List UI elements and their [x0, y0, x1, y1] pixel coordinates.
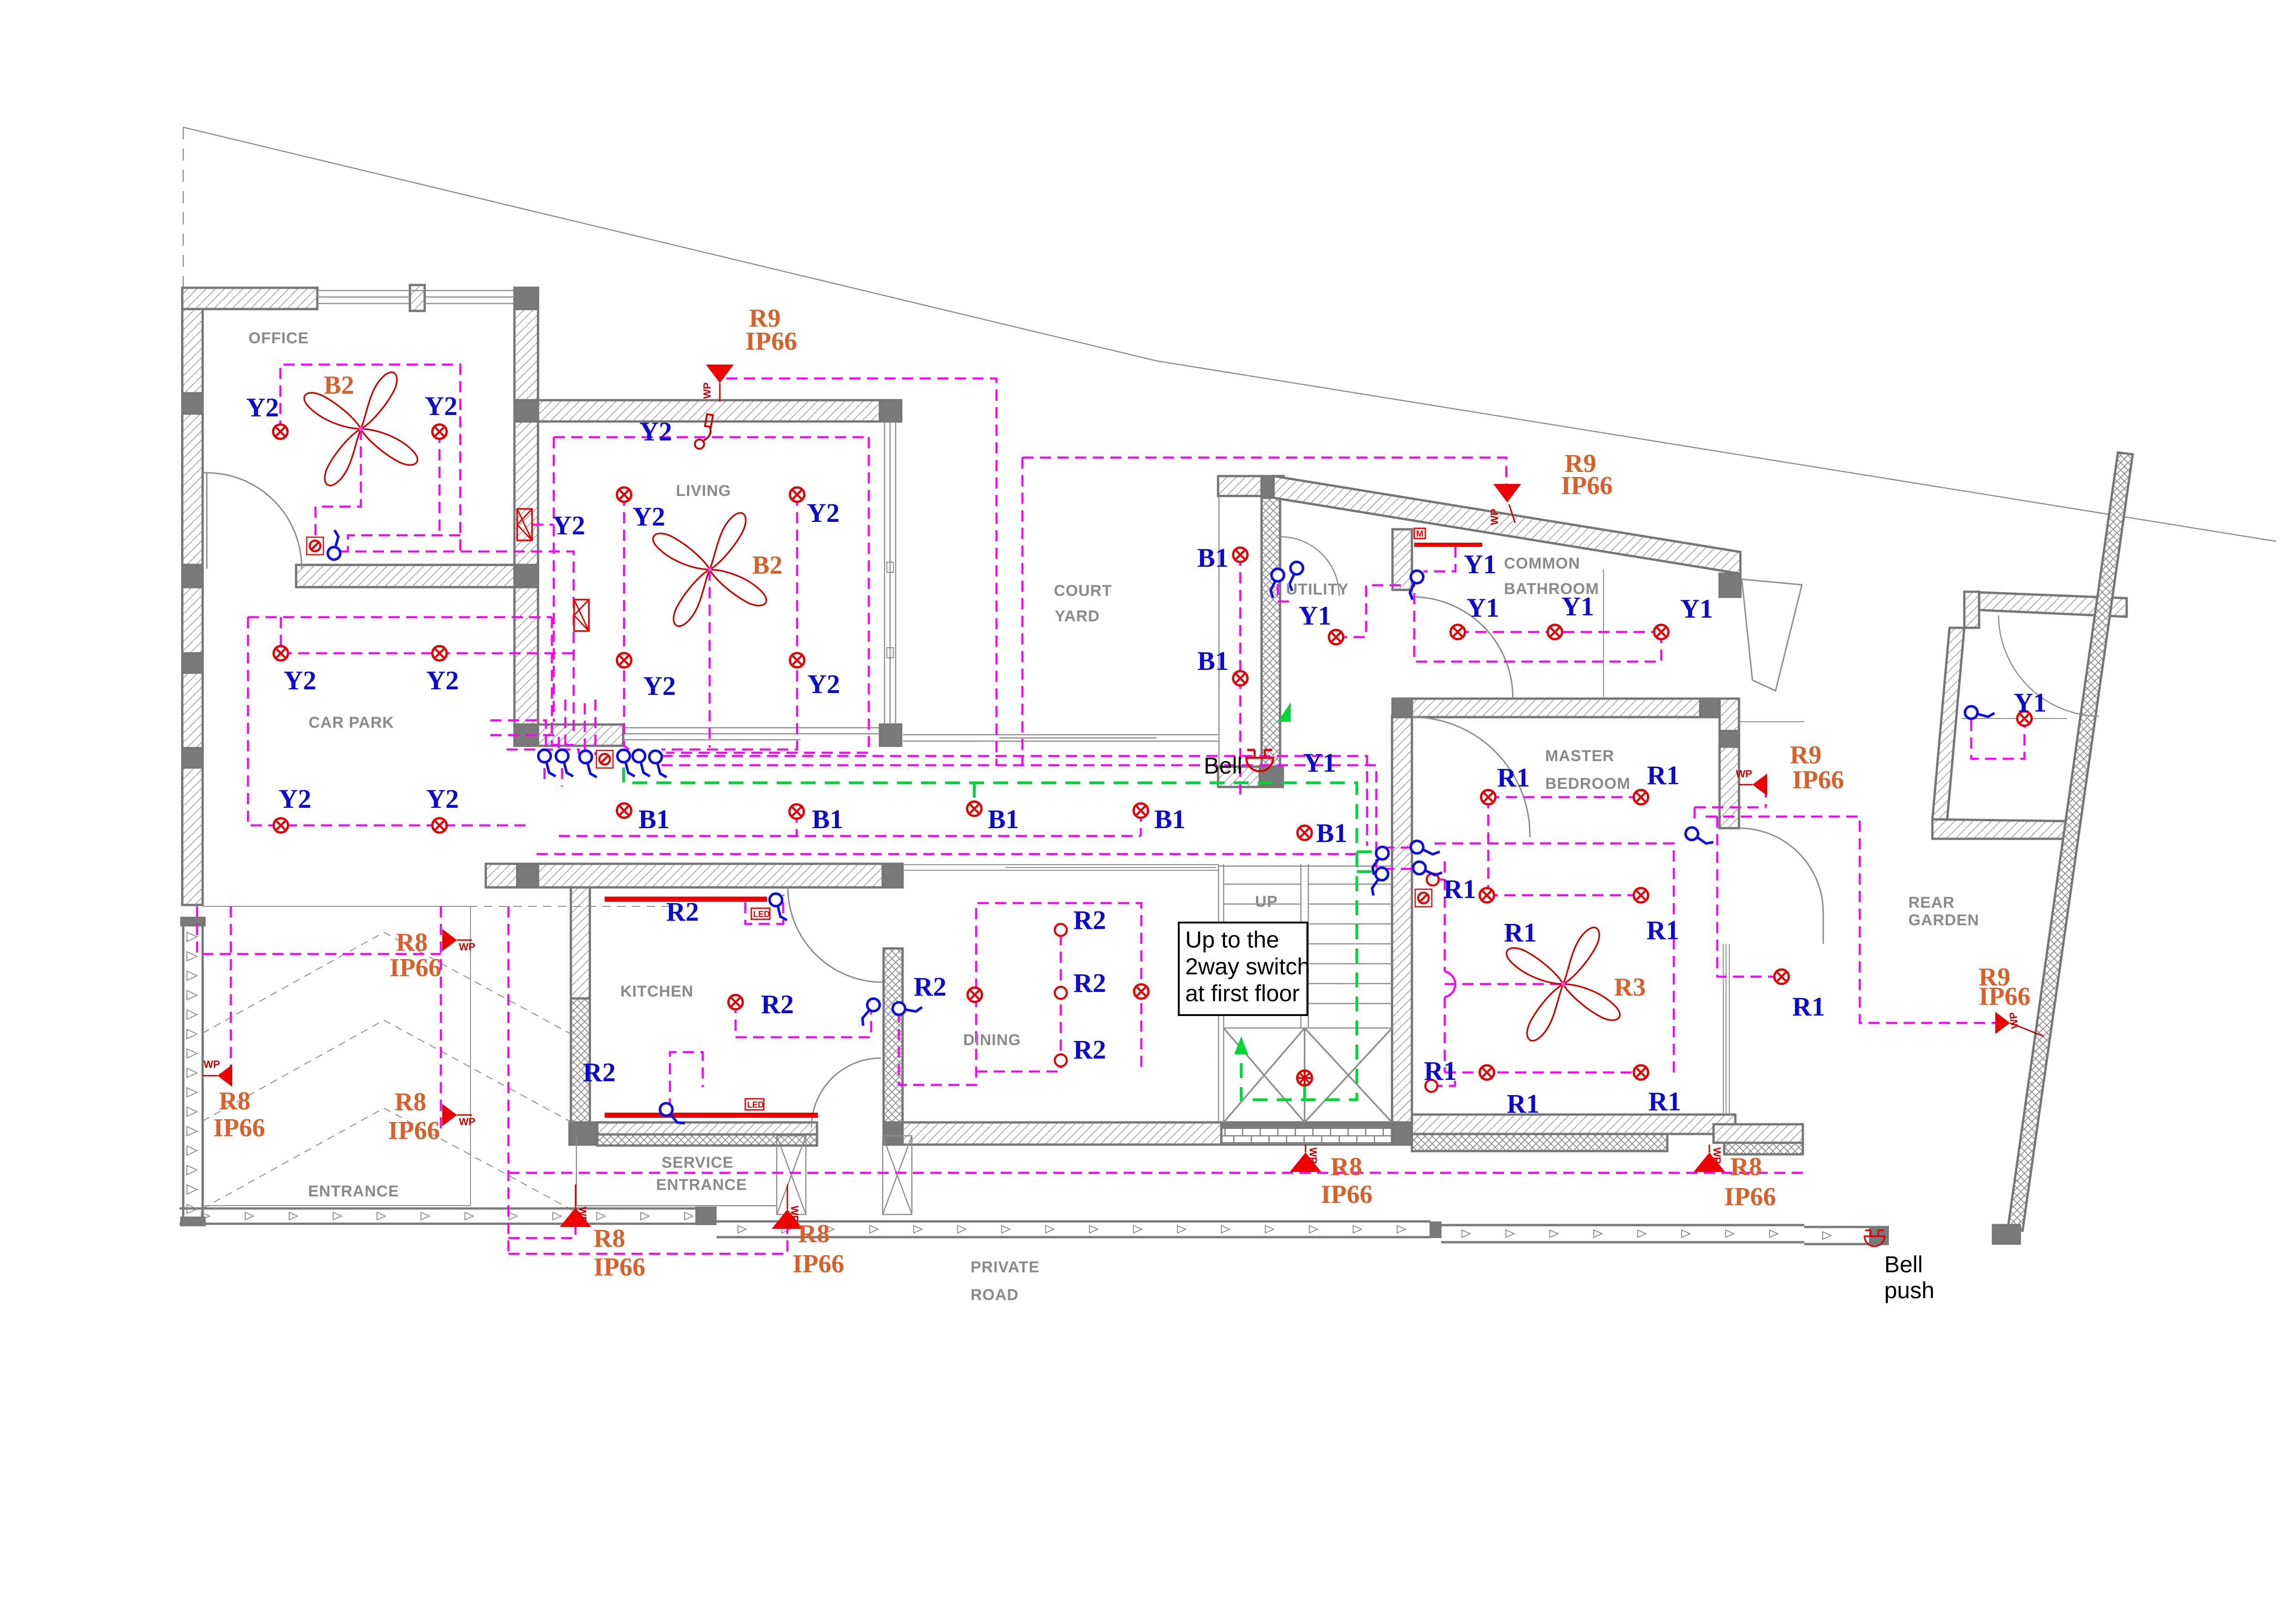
svg-text:R8: R8	[395, 1088, 426, 1116]
svg-text:PRIVATE: PRIVATE	[971, 1258, 1040, 1276]
svg-text:IP66: IP66	[1792, 766, 1844, 794]
svg-text:IP66: IP66	[1724, 1183, 1776, 1211]
svg-text:B2: B2	[324, 371, 354, 400]
svg-text:B1: B1	[1316, 818, 1348, 848]
svg-text:Y2: Y2	[632, 502, 665, 532]
svg-text:WP: WP	[1736, 768, 1752, 780]
svg-text:B1: B1	[638, 804, 670, 834]
svg-text:B1: B1	[988, 804, 1019, 834]
svg-text:Y1: Y1	[1303, 748, 1336, 778]
svg-text:R1: R1	[1792, 991, 1825, 1022]
svg-text:LED: LED	[753, 910, 770, 919]
svg-text:B1: B1	[1197, 543, 1229, 573]
svg-text:B1: B1	[1197, 646, 1229, 676]
svg-text:R2: R2	[666, 897, 699, 927]
svg-text:WP: WP	[1489, 509, 1500, 525]
svg-text:IP66: IP66	[1561, 471, 1613, 500]
svg-text:B2: B2	[752, 551, 782, 580]
svg-text:Y2: Y2	[552, 510, 585, 540]
svg-text:M: M	[1416, 529, 1423, 539]
svg-text:BEDROOM: BEDROOM	[1545, 775, 1631, 793]
svg-text:Bell: Bell	[1204, 753, 1242, 779]
svg-text:UTILITY: UTILITY	[1286, 581, 1349, 598]
svg-text:IP66: IP66	[390, 954, 441, 982]
svg-text:COMMON: COMMON	[1504, 555, 1580, 572]
svg-text:B1: B1	[1154, 804, 1186, 834]
svg-text:WP: WP	[577, 1207, 588, 1223]
svg-text:R2: R2	[914, 972, 947, 1002]
svg-text:ENTRANCE: ENTRANCE	[308, 1183, 399, 1200]
svg-text:IP66: IP66	[594, 1253, 645, 1282]
svg-text:R8: R8	[594, 1224, 625, 1253]
svg-text:WP: WP	[1711, 1147, 1723, 1164]
svg-text:R3: R3	[1614, 973, 1646, 1002]
svg-text:ENTRANCE: ENTRANCE	[656, 1176, 747, 1194]
svg-text:MASTER: MASTER	[1545, 747, 1615, 765]
svg-text:R8: R8	[1331, 1152, 1362, 1181]
svg-text:WP: WP	[2007, 1011, 2021, 1029]
svg-text:Y2: Y2	[278, 784, 311, 814]
svg-text:Bell: Bell	[1884, 1251, 1923, 1277]
svg-text:Y2: Y2	[284, 665, 316, 695]
svg-text:GARDEN: GARDEN	[1908, 911, 1979, 929]
svg-text:Y1: Y1	[1467, 593, 1499, 623]
svg-text:WP: WP	[701, 383, 713, 399]
svg-text:REAR: REAR	[1908, 894, 1955, 911]
svg-text:WP: WP	[1307, 1147, 1319, 1164]
svg-text:DINING: DINING	[963, 1031, 1021, 1049]
svg-text:Y1: Y1	[2014, 688, 2047, 718]
svg-text:Y2: Y2	[425, 391, 458, 421]
svg-text:R1: R1	[1497, 762, 1530, 793]
svg-text:ROAD: ROAD	[971, 1286, 1019, 1304]
svg-text:UP: UP	[1255, 893, 1278, 911]
svg-text:IP66: IP66	[388, 1116, 440, 1145]
svg-text:Y1: Y1	[1299, 601, 1331, 631]
svg-text:IP66: IP66	[1321, 1180, 1373, 1209]
svg-text:Y1: Y1	[1464, 549, 1497, 579]
svg-text:R2: R2	[1073, 1035, 1106, 1065]
svg-text:LED: LED	[747, 1100, 764, 1109]
svg-text:CAR PARK: CAR PARK	[309, 714, 394, 731]
svg-text:at first floor: at first floor	[1185, 980, 1300, 1006]
svg-text:Y1: Y1	[1680, 594, 1713, 624]
svg-text:WP: WP	[459, 941, 475, 953]
svg-text:WP: WP	[459, 1116, 475, 1127]
svg-text:Y1: Y1	[1561, 591, 1594, 621]
svg-text:push: push	[1884, 1277, 1934, 1303]
svg-text:R2: R2	[1073, 905, 1106, 935]
svg-text:R2: R2	[761, 989, 794, 1019]
svg-text:2way switch: 2way switch	[1185, 954, 1310, 979]
svg-text:WP: WP	[204, 1059, 220, 1070]
svg-text:R1: R1	[1424, 1056, 1457, 1086]
svg-text:Y2: Y2	[807, 498, 840, 528]
svg-text:SERVICE: SERVICE	[662, 1154, 734, 1171]
svg-text:R1: R1	[1507, 1089, 1540, 1119]
svg-text:R1: R1	[1504, 917, 1537, 948]
svg-text:Y2: Y2	[639, 416, 672, 446]
svg-text:Y2: Y2	[807, 669, 840, 699]
svg-text:R2: R2	[583, 1057, 616, 1087]
svg-text:R8: R8	[1730, 1152, 1762, 1181]
svg-text:R1: R1	[1647, 760, 1680, 790]
svg-text:R8: R8	[219, 1087, 250, 1115]
svg-text:R8: R8	[798, 1220, 829, 1248]
svg-text:Y2: Y2	[643, 671, 676, 701]
svg-text:OFFICE: OFFICE	[248, 329, 309, 347]
svg-text:IP66: IP66	[1979, 982, 2030, 1011]
svg-text:Y2: Y2	[426, 784, 459, 814]
svg-text:KITCHEN: KITCHEN	[620, 983, 693, 1000]
svg-text:Y2: Y2	[426, 665, 459, 695]
svg-text:R1: R1	[1648, 1086, 1681, 1116]
svg-text:IP66: IP66	[745, 327, 797, 356]
svg-text:B1: B1	[812, 804, 843, 834]
svg-text:R1: R1	[1443, 874, 1476, 904]
svg-text:COURT: COURT	[1054, 582, 1112, 600]
svg-text:LIVING: LIVING	[676, 482, 731, 500]
svg-text:IP66: IP66	[213, 1114, 265, 1142]
svg-text:Y2: Y2	[246, 392, 279, 422]
svg-text:Up to the: Up to the	[1185, 927, 1279, 953]
svg-text:R8: R8	[396, 928, 427, 957]
svg-text:R1: R1	[1646, 915, 1679, 945]
svg-text:R9: R9	[1790, 741, 1821, 769]
svg-text:R2: R2	[1073, 968, 1106, 998]
svg-text:YARD: YARD	[1055, 607, 1100, 625]
svg-text:IP66: IP66	[792, 1250, 844, 1278]
